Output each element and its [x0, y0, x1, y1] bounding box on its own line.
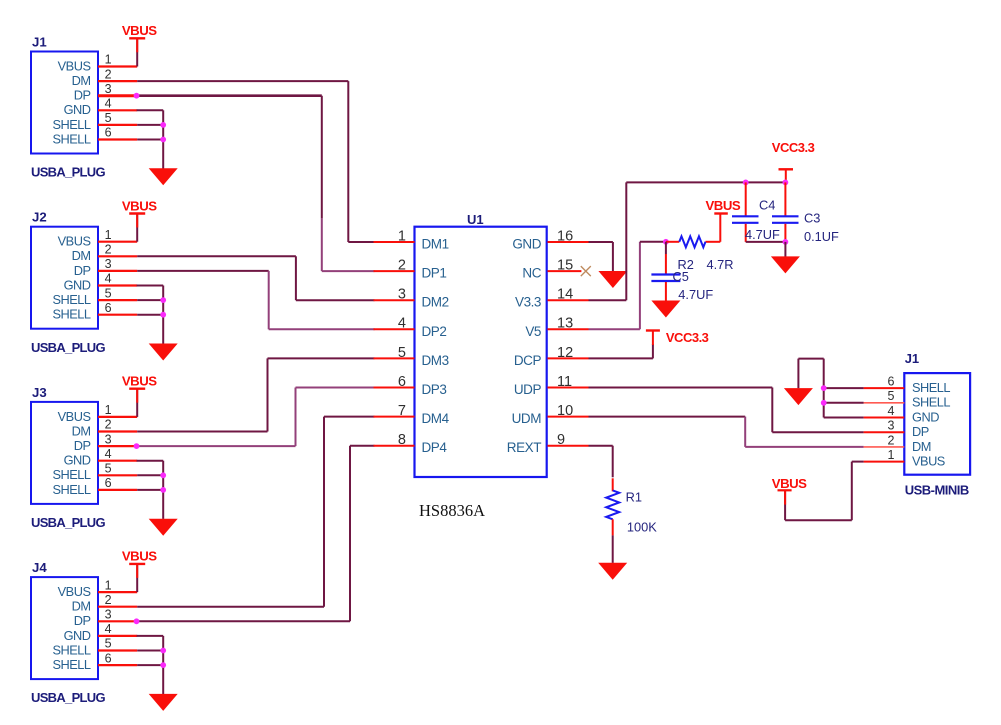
- svg-text:VBUS: VBUS: [706, 198, 741, 213]
- svg-text:1: 1: [105, 578, 112, 592]
- svg-text:100K: 100K: [627, 520, 657, 535]
- junction J3.DP: [134, 443, 140, 449]
- svg-text:NC: NC: [522, 266, 541, 281]
- connector J1 USBA_PLUG: [31, 52, 98, 154]
- power symbol VCC3.3 at DCP: [646, 329, 660, 331]
- connector J2 USBA_PLUG: [31, 227, 98, 329]
- power symbol VBUS at R2: [719, 215, 721, 242]
- svg-text:5: 5: [105, 111, 112, 125]
- svg-text:VBUS: VBUS: [58, 409, 91, 424]
- IC U1 HS8836A: [415, 227, 547, 477]
- pin 6 (SHELL) J1: [98, 138, 137, 140]
- junction J1 shell: [160, 122, 166, 128]
- junction C3 bottom: [783, 239, 789, 245]
- mini pin 3 (DP): [864, 431, 905, 433]
- pin 2 (DM) J2: [98, 255, 137, 257]
- svg-text:DM: DM: [72, 73, 91, 88]
- svg-text:UDM: UDM: [512, 411, 542, 426]
- svg-text:DP: DP: [74, 263, 91, 278]
- svg-text:4.7UF: 4.7UF: [745, 227, 780, 242]
- svg-text:SHELL: SHELL: [52, 657, 90, 672]
- svg-text:UDP: UDP: [514, 382, 542, 397]
- svg-text:J4: J4: [32, 560, 47, 575]
- wire VBUS J4 pin1: [136, 564, 138, 592]
- svg-text:V3.3: V3.3: [515, 295, 541, 310]
- svg-text:C5: C5: [673, 269, 689, 284]
- wire J3.GND/SHELL to ground: [137, 460, 164, 462]
- connector J3 USBA_PLUG: [31, 402, 98, 504]
- connector J1 USB-MINIB: [904, 373, 970, 475]
- svg-text:J1: J1: [905, 351, 919, 366]
- svg-text:4: 4: [398, 316, 406, 332]
- svg-text:DP: DP: [912, 424, 929, 439]
- wire J3.DM to U1: [137, 431, 267, 433]
- junction mini shell6: [821, 385, 827, 391]
- U1 pin 7 (DM4): [374, 416, 415, 418]
- svg-text:5: 5: [887, 389, 894, 403]
- svg-text:4.7UF: 4.7UF: [678, 287, 713, 302]
- pin 3 (DP) J4: [98, 620, 137, 622]
- junction J2 shell: [160, 297, 166, 303]
- svg-text:10: 10: [557, 403, 573, 419]
- svg-text:VBUS: VBUS: [122, 374, 157, 389]
- wire U1.DCP to VCC3.3: [589, 357, 653, 359]
- capacitor C5 4.7UF: [665, 242, 667, 254]
- junction J3 shell: [160, 472, 166, 478]
- svg-text:13: 13: [557, 316, 573, 332]
- svg-text:DCP: DCP: [514, 353, 542, 368]
- svg-text:6: 6: [887, 375, 894, 389]
- mini pin 2 (DM): [864, 446, 905, 448]
- ground C5: [651, 301, 680, 318]
- svg-text:SHELL: SHELL: [52, 482, 90, 497]
- svg-text:USBA_PLUG: USBA_PLUG: [31, 340, 105, 355]
- wire J3.DP to U1: [137, 445, 295, 447]
- svg-text:DP2: DP2: [422, 324, 447, 339]
- pin 3 (DP) J3: [98, 445, 137, 447]
- svg-text:VBUS: VBUS: [122, 23, 157, 38]
- pin 3 (DP) J2: [98, 270, 137, 272]
- wire J4.DM to U1: [137, 606, 324, 608]
- wire mini VBUS: [852, 461, 864, 463]
- svg-text:4: 4: [105, 97, 112, 111]
- svg-text:VCC3.3: VCC3.3: [772, 140, 815, 155]
- pin 6 (SHELL) J2: [98, 314, 137, 316]
- svg-text:J3: J3: [32, 385, 47, 400]
- power symbol VBUS: [129, 212, 145, 214]
- resistor R2 4.7R: [666, 241, 679, 243]
- pin 3 (DP) J1: [98, 94, 137, 97]
- pin 6 (SHELL) J4: [98, 664, 137, 666]
- wire U1.V5 to R2 node: [589, 328, 640, 330]
- pin 1 (VBUS) J3: [98, 416, 137, 418]
- svg-text:DM: DM: [72, 423, 91, 438]
- wire VBUS J3 pin1: [136, 389, 138, 417]
- wire J2.DM to U1: [137, 255, 296, 257]
- svg-text:4: 4: [887, 404, 894, 418]
- ground C3/C4: [771, 256, 800, 273]
- pin 2 (DM) J3: [98, 430, 137, 432]
- svg-text:3: 3: [105, 608, 112, 622]
- svg-text:SHELL: SHELL: [52, 467, 90, 482]
- svg-text:6: 6: [105, 301, 112, 315]
- pin 2 (DM) J1: [98, 80, 137, 82]
- U1 pin 11 (UDP): [548, 387, 589, 389]
- mini pin 6 (SHELL): [864, 387, 905, 389]
- pin 1 (VBUS) J2: [98, 241, 137, 243]
- junction J1.DP: [134, 93, 140, 99]
- wire J4.DP to U1: [137, 620, 350, 622]
- svg-text:REXT: REXT: [507, 440, 541, 455]
- svg-text:DM: DM: [72, 248, 91, 263]
- svg-text:J2: J2: [32, 210, 47, 225]
- svg-text:3: 3: [398, 287, 406, 303]
- ground J1: [149, 168, 178, 185]
- power symbol VBUS: [129, 563, 145, 565]
- svg-text:7: 7: [398, 403, 406, 419]
- mini pin 5 (SHELL): [864, 402, 905, 404]
- svg-text:J1: J1: [32, 35, 47, 50]
- svg-text:V5: V5: [525, 324, 541, 339]
- pin 5 (SHELL) J3: [98, 474, 137, 476]
- no-connect X on U1 pin 15: [581, 266, 591, 276]
- svg-text:2: 2: [398, 258, 406, 274]
- pin 4 (GND) J3: [98, 460, 137, 462]
- svg-text:SHELL: SHELL: [52, 307, 90, 322]
- svg-text:6: 6: [398, 374, 406, 390]
- svg-text:6: 6: [105, 126, 112, 140]
- U1 pin 16 (GND): [548, 241, 589, 243]
- junction J4 shell: [160, 648, 166, 654]
- svg-text:1: 1: [105, 53, 112, 67]
- svg-text:2: 2: [887, 433, 894, 447]
- svg-text:4: 4: [105, 622, 112, 636]
- svg-text:DM: DM: [72, 599, 91, 614]
- wire J4.GND/SHELL to ground: [137, 635, 164, 637]
- ground R1: [598, 563, 627, 580]
- wire J2.GND/SHELL to ground: [137, 285, 164, 287]
- svg-text:4: 4: [105, 447, 112, 461]
- svg-text:2: 2: [105, 67, 112, 81]
- pin 2 (DM) J4: [98, 606, 137, 608]
- wire U1.UDP to J1 mini DP: [589, 387, 773, 389]
- svg-text:3: 3: [105, 257, 112, 271]
- pin 1 (VBUS) J4: [98, 591, 137, 593]
- svg-text:15: 15: [557, 258, 573, 274]
- wire mini SHELL/GND to ground: [824, 387, 864, 389]
- power symbol VBUS: [129, 388, 145, 390]
- pin 5 (SHELL) J4: [98, 649, 137, 651]
- pin 4 (GND) J1: [98, 109, 137, 111]
- svg-text:VCC3.3: VCC3.3: [666, 330, 709, 345]
- connector J4 USBA_PLUG: [31, 577, 98, 679]
- svg-text:2: 2: [105, 243, 112, 257]
- svg-text:SHELL: SHELL: [52, 642, 90, 657]
- svg-text:DM2: DM2: [422, 295, 449, 310]
- svg-text:USBA_PLUG: USBA_PLUG: [31, 165, 105, 180]
- svg-text:DP: DP: [74, 613, 91, 628]
- svg-text:5: 5: [105, 462, 112, 476]
- svg-text:1: 1: [398, 228, 406, 244]
- svg-text:3: 3: [105, 82, 112, 96]
- svg-text:VBUS: VBUS: [122, 198, 157, 213]
- svg-text:6: 6: [105, 476, 112, 490]
- svg-text:SHELL: SHELL: [912, 380, 950, 395]
- svg-text:C3: C3: [804, 211, 820, 226]
- svg-text:HS8836A: HS8836A: [419, 501, 485, 520]
- U1 pin 9 (REXT): [548, 445, 589, 447]
- junction R2/V5/C5 node: [663, 239, 669, 245]
- pin 1 (VBUS) J1: [98, 65, 137, 67]
- svg-text:8: 8: [398, 432, 406, 448]
- svg-text:VBUS: VBUS: [122, 549, 157, 564]
- svg-text:GND: GND: [64, 102, 91, 117]
- svg-text:DP4: DP4: [422, 440, 448, 455]
- svg-text:14: 14: [557, 287, 573, 303]
- svg-text:5: 5: [105, 286, 112, 300]
- svg-text:5: 5: [105, 637, 112, 651]
- U1 pin 8 (DP4): [374, 445, 415, 447]
- svg-text:SHELL: SHELL: [912, 395, 950, 410]
- svg-text:9: 9: [557, 432, 565, 448]
- pin 4 (GND) J4: [98, 635, 137, 637]
- svg-text:USB-MINIB: USB-MINIB: [905, 483, 969, 498]
- svg-text:VBUS: VBUS: [58, 234, 91, 249]
- U1 pin 13 (V5): [548, 328, 589, 330]
- ground J2: [149, 344, 178, 361]
- U1 pin 3 (DM2): [374, 299, 415, 301]
- svg-text:4: 4: [105, 272, 112, 286]
- svg-text:VBUS: VBUS: [58, 58, 91, 73]
- wire J1.GND/SHELL to ground: [137, 109, 164, 111]
- svg-text:R1: R1: [626, 490, 642, 505]
- U1 pin 14 (V3.3): [548, 299, 589, 301]
- svg-text:USBA_PLUG: USBA_PLUG: [31, 515, 105, 530]
- svg-text:VBUS: VBUS: [772, 476, 807, 491]
- junction mini shell5: [821, 400, 827, 406]
- resistor R1 100K: [606, 490, 619, 519]
- svg-text:SHELL: SHELL: [52, 131, 90, 146]
- svg-text:SHELL: SHELL: [52, 292, 90, 307]
- power symbol VBUS mini: [778, 489, 792, 491]
- U1 pin 2 (DP1): [374, 270, 415, 272]
- wire U1.V3.3 to VCC3.3 rail: [589, 299, 627, 301]
- svg-text:GND: GND: [64, 277, 91, 292]
- capacitor C3 0.1UF: [784, 182, 786, 215]
- svg-text:DP: DP: [74, 438, 91, 453]
- svg-text:2: 2: [105, 418, 112, 432]
- pin 5 (SHELL) J2: [98, 299, 137, 301]
- junction rail C3: [783, 180, 789, 186]
- svg-text:USBA_PLUG: USBA_PLUG: [31, 690, 105, 705]
- svg-text:GND: GND: [912, 409, 939, 424]
- U1 pin 12 (DCP): [548, 357, 589, 359]
- svg-text:DP3: DP3: [422, 382, 447, 397]
- svg-text:11: 11: [557, 374, 572, 390]
- svg-text:3: 3: [105, 432, 112, 446]
- wire VBUS J2 pin1: [136, 214, 138, 242]
- svg-text:DM4: DM4: [422, 411, 450, 426]
- mini pin 4 (GND): [864, 417, 905, 419]
- pin 6 (SHELL) J3: [98, 489, 137, 491]
- capacitor C4 4.7UF: [745, 182, 747, 215]
- svg-text:GND: GND: [512, 237, 541, 252]
- U1 pin 10 (UDM): [548, 416, 589, 418]
- wire U1.REXT to R1: [589, 445, 613, 447]
- mini pin 1 (VBUS): [864, 461, 905, 463]
- svg-text:DM: DM: [912, 439, 931, 454]
- wire J2.DP to U1: [137, 270, 269, 272]
- svg-text:U1: U1: [467, 212, 484, 227]
- svg-text:DM1: DM1: [422, 237, 449, 252]
- U1 pin 1 (DM1): [374, 241, 415, 243]
- U1 pin 4 (DP2): [374, 328, 415, 330]
- junction J4.DP: [134, 618, 140, 624]
- svg-text:GND: GND: [64, 453, 91, 468]
- wire VCC3.3 rail: [626, 181, 785, 183]
- wire J1.DP to U1: [137, 94, 322, 97]
- svg-text:12: 12: [557, 345, 573, 361]
- ground J4: [149, 694, 178, 711]
- svg-text:DM3: DM3: [422, 353, 449, 368]
- svg-text:C4: C4: [759, 198, 775, 213]
- svg-text:1: 1: [105, 403, 112, 417]
- svg-text:GND: GND: [64, 628, 91, 643]
- ground mini: [784, 388, 813, 405]
- U1 pin 5 (DM3): [374, 357, 415, 359]
- svg-text:VBUS: VBUS: [58, 584, 91, 599]
- power symbol VCC3.3 top: [785, 171, 787, 183]
- power symbol VBUS: [129, 37, 145, 39]
- wire R1 to ground: [612, 519, 614, 535]
- svg-text:2: 2: [105, 593, 112, 607]
- pin 4 (GND) J2: [98, 284, 137, 286]
- svg-text:VBUS: VBUS: [912, 454, 945, 469]
- wire VBUS J1 pin1: [136, 38, 138, 66]
- svg-text:16: 16: [557, 228, 573, 244]
- U1 pin 15 (NC): [548, 270, 582, 272]
- pin 5 (SHELL) J1: [98, 124, 137, 126]
- svg-text:1: 1: [887, 448, 894, 462]
- junction rail C4: [743, 180, 749, 186]
- svg-text:1: 1: [105, 228, 112, 242]
- ground U1 GND: [598, 271, 627, 288]
- wire U1.UDM to J1 mini DM: [589, 416, 746, 418]
- svg-text:5: 5: [398, 345, 406, 361]
- wire U1.GND to ground: [589, 241, 613, 243]
- U1 pin 6 (DP3): [374, 387, 415, 389]
- svg-text:3: 3: [887, 419, 894, 433]
- svg-text:SHELL: SHELL: [52, 117, 90, 132]
- svg-text:6: 6: [105, 651, 112, 665]
- svg-text:4.7R: 4.7R: [707, 257, 734, 272]
- svg-text:DP1: DP1: [422, 266, 447, 281]
- ground J3: [149, 519, 178, 536]
- wire J1.DM to U1: [137, 80, 348, 82]
- svg-text:0.1UF: 0.1UF: [804, 229, 839, 244]
- svg-text:DP: DP: [74, 88, 91, 103]
